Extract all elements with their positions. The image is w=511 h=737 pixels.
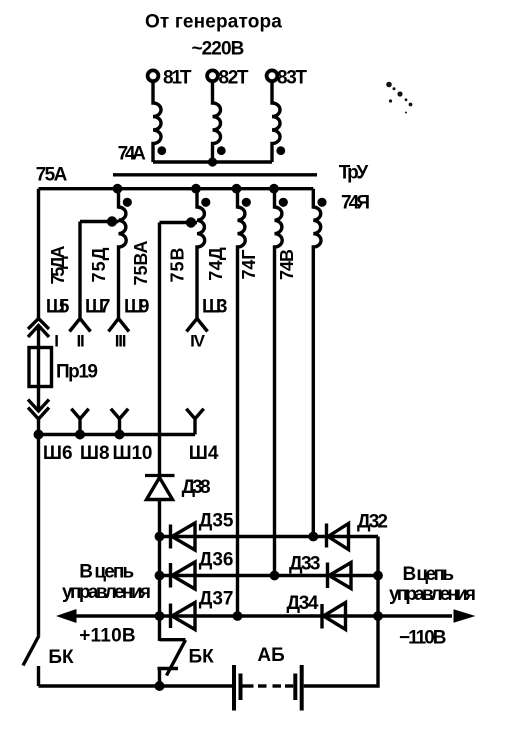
svg-text:Пр19: Пр19: [56, 362, 98, 383]
svg-text:74В: 74В: [277, 249, 297, 280]
svg-text:Д38: Д38: [182, 477, 211, 498]
svg-text:Ш5: Ш5: [46, 297, 70, 318]
svg-text:АБ: АБ: [257, 645, 284, 666]
svg-text:74Я: 74Я: [341, 193, 370, 214]
svg-text:Д32: Д32: [357, 512, 388, 533]
svg-text:Ш6: Ш6: [43, 443, 73, 464]
svg-text:БК: БК: [189, 647, 215, 668]
svg-text:Д33: Д33: [289, 554, 321, 575]
svg-text:Д34: Д34: [287, 593, 319, 614]
svg-text:В цепь: В цепь: [403, 564, 455, 585]
svg-text:74Д: 74Д: [206, 247, 226, 281]
svg-text:От генератора: От генератора: [145, 12, 282, 33]
svg-text:III: III: [115, 332, 126, 351]
svg-text:управления: управления: [389, 584, 476, 605]
svg-text:управления: управления: [62, 582, 151, 603]
svg-text:75В: 75В: [168, 248, 188, 283]
svg-text:Ш3: Ш3: [202, 297, 228, 318]
svg-text:+110В: +110В: [79, 626, 135, 647]
svg-text:81Т: 81Т: [163, 68, 192, 89]
svg-text:82Т: 82Т: [219, 68, 249, 89]
svg-text:Д36: Д36: [199, 550, 234, 571]
svg-text:−110В: −110В: [399, 628, 447, 649]
svg-text:IV: IV: [190, 332, 206, 351]
svg-text:ТрУ: ТрУ: [339, 163, 369, 184]
svg-text:74А: 74А: [118, 144, 146, 165]
svg-text:БК: БК: [48, 647, 74, 668]
svg-text:75ВА: 75ВА: [131, 241, 151, 286]
svg-text:Ш7: Ш7: [85, 297, 111, 318]
svg-text:Ш10: Ш10: [113, 443, 153, 464]
svg-text:I: I: [54, 332, 58, 351]
svg-text:74Г: 74Г: [239, 250, 259, 280]
svg-text:Ш9: Ш9: [124, 297, 150, 318]
svg-text:Д37: Д37: [199, 589, 234, 610]
svg-text:Д35: Д35: [199, 511, 234, 532]
svg-text:II: II: [76, 332, 84, 351]
svg-text:В цепь: В цепь: [79, 562, 134, 583]
svg-text:Ш4: Ш4: [189, 443, 219, 464]
svg-text:Ш8: Ш8: [80, 443, 110, 464]
svg-text:83Т: 83Т: [277, 68, 307, 89]
svg-text:75ДА: 75ДА: [48, 246, 68, 285]
svg-text:75Д: 75Д: [89, 247, 109, 282]
svg-text:75А: 75А: [36, 165, 68, 186]
svg-text:~220В: ~220В: [192, 39, 245, 60]
